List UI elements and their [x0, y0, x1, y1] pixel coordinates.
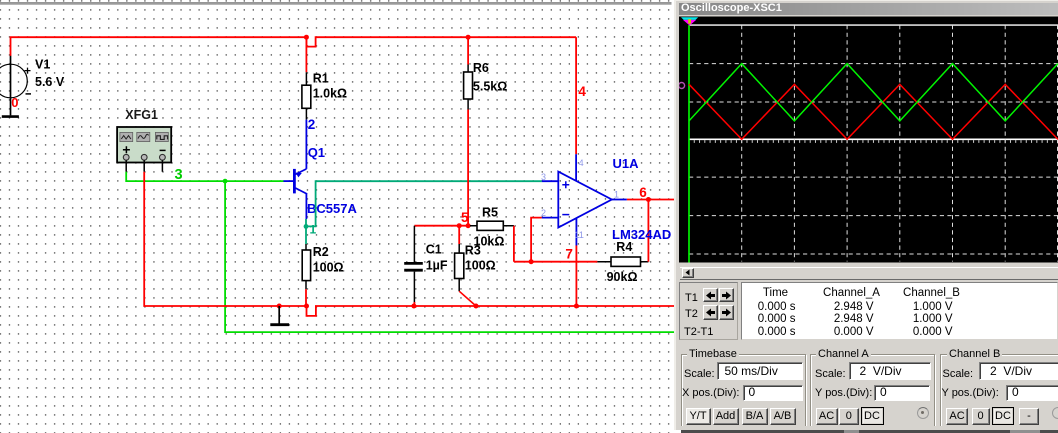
label T2 [685, 308, 698, 320]
T2 left button [703, 305, 718, 320]
label Y pos channel B [942, 387, 999, 399]
trigger marker [681, 17, 698, 20]
input Y pos channel B [1006, 385, 1058, 401]
junction dot node5 right [466, 223, 471, 228]
function generator XFG1 [117, 108, 171, 172]
voltage source V1 [0, 56, 65, 116]
window bottom dark strip [676, 426, 1058, 430]
wire: net7 R5 right down and across to R4 [514, 226, 598, 262]
svg-text:1: 1 [310, 223, 317, 237]
label T1 [685, 292, 698, 304]
junction dot net6 [646, 197, 651, 202]
wire: R6 bottom red to node5 [467, 110, 469, 226]
wire: net3 green from XFG1 + terminal to Q1 base [126, 172, 283, 181]
wire: R1 top red segment [305, 37, 307, 72]
top toolbar edge [0, 2, 672, 3]
junction dot on rail at R1 [304, 35, 309, 40]
ground under V1 [2, 115, 19, 118]
svg-text:4: 4 [578, 84, 586, 99]
label Scale timebase [684, 368, 715, 380]
button B/A [742, 408, 768, 425]
readout row 2 [730, 313, 796, 325]
label Scale channel B [943, 368, 974, 380]
junction dot on rail at R6 [466, 35, 471, 40]
cursor line left green [688, 25, 690, 262]
transistor Q1 BC557A [283, 145, 357, 219]
button DC channel B [992, 407, 1014, 425]
T1 right button [719, 288, 734, 303]
input Y pos channel A [874, 385, 930, 401]
svg-text:100Ω: 100Ω [465, 259, 496, 273]
junction dot C1 bottom [411, 304, 416, 309]
svg-text:R5: R5 [482, 205, 498, 219]
svg-text:7: 7 [565, 247, 573, 262]
svg-text:1µF: 1µF [426, 259, 448, 273]
junction dot net7 [529, 259, 534, 264]
wire: C1 bottom red stub [413, 302, 415, 306]
svg-text:3: 3 [541, 172, 546, 182]
group box Channel B [940, 354, 1058, 427]
svg-text:XFG1: XFG1 [125, 108, 158, 122]
scope screen [679, 16, 1058, 263]
svg-text:U1A: U1A [613, 156, 640, 171]
resistor R5 [470, 205, 514, 248]
button 0 channel B [972, 408, 990, 425]
label Scale channel A [815, 368, 846, 380]
junction dot net1 [304, 224, 309, 229]
button 0 channel A [839, 408, 859, 425]
svg-text:2: 2 [541, 208, 546, 218]
resistor R4 [597, 240, 648, 284]
svg-text:6: 6 [639, 185, 647, 200]
svg-text:1: 1 [614, 190, 619, 200]
svg-text:R6: R6 [473, 61, 489, 75]
input X pos [743, 385, 803, 401]
svg-text:4: 4 [579, 158, 584, 168]
svg-text:10kΩ: 10kΩ [474, 235, 505, 249]
junction dot R3 bottom [474, 304, 479, 309]
svg-text:R2: R2 [313, 245, 329, 259]
resistor R1 [302, 72, 347, 120]
readout values panel [741, 282, 1058, 340]
resistor R2 [302, 244, 343, 289]
channel B waveform green triangle [689, 64, 1058, 121]
svg-text:2: 2 [308, 117, 316, 132]
button minus channel B [1019, 408, 1039, 425]
graticule dashed verticals [742, 25, 1058, 261]
junction dot net3 [223, 179, 228, 184]
T1 left button [703, 288, 718, 303]
wire: net7 up to op-amp -input [531, 218, 542, 262]
group box Timebase [681, 354, 806, 427]
junction dot R2 bottom [304, 304, 309, 309]
svg-text:1.0kΩ: 1.0kΩ [313, 87, 347, 101]
button AC channel A [816, 408, 838, 425]
svg-text:0: 0 [11, 95, 18, 110]
wire: R3 bottom diagonal to rail [459, 291, 476, 306]
wire: XFG1 common red down to bottom rail [144, 172, 306, 306]
svg-text:C1: C1 [426, 243, 442, 257]
wire: R2 bottom red [305, 289, 307, 306]
svg-text:5: 5 [461, 210, 469, 225]
input channel A scale [849, 362, 931, 380]
junction dot net0/pin11 [574, 304, 579, 309]
graticule dashed horizontals [689, 64, 1058, 254]
scrollbar left arrow button [682, 268, 694, 278]
svg-text:5.6 V: 5.6 V [35, 75, 65, 89]
junction dot ground tap [277, 304, 282, 309]
readout header row [746, 287, 806, 299]
oscilloscope window XSC1 [674, 0, 1058, 430]
op-amp U1A [542, 154, 671, 245]
capacitor C1 [404, 226, 448, 303]
wire: +V top rail from V1 to net4 corner [11, 37, 577, 56]
button DC channel A [861, 407, 884, 425]
svg-text:11: 11 [575, 230, 584, 240]
button AC channel B [946, 408, 968, 425]
T2 right button [719, 305, 734, 320]
schematic sheet with grid [0, 0, 676, 433]
wire: net7 feedback vertical pin11 to rail [575, 246, 577, 307]
svg-text:LM324AD: LM324AD [612, 227, 671, 242]
button A/B [770, 408, 796, 425]
resistor R6 [464, 61, 508, 110]
scope scrollbar [680, 267, 1058, 280]
readout cursor box [679, 282, 738, 340]
input channel B scale [979, 362, 1058, 380]
input timebase scale [717, 362, 803, 380]
ground symbol mid [278, 306, 280, 324]
svg-text:3: 3 [175, 167, 183, 183]
wire: net3 green branch down and across bottom [225, 181, 676, 332]
svg-text:V1: V1 [35, 58, 50, 72]
button Add [713, 408, 739, 425]
wire: node5 horizontal C1 to R5 [414, 225, 470, 227]
readout row 1 [730, 301, 796, 313]
label T2-T1 [684, 326, 713, 338]
wire: net1 teal Q1 collector to R2 and to op-amp +input [306, 181, 542, 244]
svg-text:90kΩ: 90kΩ [607, 270, 638, 284]
resistor R3 [455, 226, 496, 292]
graticule center axis [689, 138, 1058, 140]
junction dot node5 left [457, 223, 462, 228]
svg-text:R1: R1 [313, 72, 329, 86]
radio icon channel A [917, 407, 929, 419]
radio icon channel B partial [1052, 407, 1058, 419]
label Y pos channel A [815, 387, 872, 399]
svg-text:BC557A: BC557A [307, 201, 357, 216]
channel A waveform red triangle [689, 84, 1058, 139]
button Y/T [686, 408, 711, 425]
scope title bar [679, 3, 1058, 15]
readout row 3 [730, 326, 796, 338]
label X pos [682, 387, 739, 399]
wire: net6 output to R4 right [627, 200, 676, 262]
wire: net4 vertical to op-amp pin4 [575, 37, 577, 154]
svg-text:100Ω: 100Ω [313, 261, 344, 275]
group box Channel A [810, 354, 935, 427]
graticule top border [689, 24, 1058, 26]
wire: R6 top red segment [467, 37, 469, 64]
wire: bottom rail with jog to right edge [307, 306, 677, 316]
svg-text:5.5kΩ: 5.5kΩ [473, 80, 507, 94]
wire: net2 blue R1 to Q1 emitter [305, 120, 307, 169]
cursor handle circle [679, 83, 685, 89]
svg-text:Q1: Q1 [308, 145, 325, 160]
